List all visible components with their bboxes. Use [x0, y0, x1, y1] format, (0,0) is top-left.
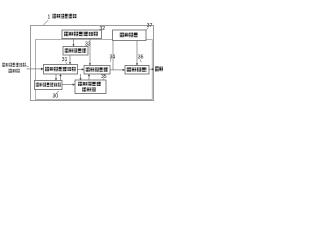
box 36 text — [127, 67, 147, 71]
leader from left text — [25, 65, 29, 67]
box 37 text — [120, 33, 138, 38]
box 32 text — [64, 32, 98, 36]
outer device box 1 — [31, 26, 154, 101]
output label (exterior) — [155, 66, 163, 71]
voice data memory box 35 — [75, 80, 106, 94]
numeral 32 leader — [100, 29, 101, 30]
box 31 text — [45, 67, 75, 71]
connector 32 to 34 — [89, 39, 91, 65]
numeral 31 leader — [66, 62, 68, 65]
numeral 37 leader — [146, 28, 148, 30]
connector 31 down to tone box — [55, 74, 57, 79]
output arrow — [149, 68, 153, 70]
arrow 34 to 36 — [110, 69, 123, 71]
inner control unit box 30 — [36, 40, 153, 100]
tone data box lower-left — [35, 81, 63, 90]
lower-left box text — [36, 83, 61, 87]
svg-text:1: 1 — [48, 15, 51, 21]
numeral 35 leader — [103, 79, 104, 81]
svg-text:32: 32 — [100, 26, 106, 32]
amplifier box 36 — [125, 66, 149, 75]
svg-text:31: 31 — [62, 57, 68, 63]
connector 37 to line junction — [112, 41, 114, 70]
numeral 33 leader — [87, 45, 88, 48]
display box 37 — [113, 30, 147, 41]
connector 32 to 33 — [73, 39, 75, 46]
title text (device name) — [53, 14, 77, 19]
connector 35 up to 34 — [88, 75, 90, 80]
synthesis box 34 — [84, 66, 110, 75]
left outside text line1 — [2, 63, 25, 67]
arrow tone box to 35 — [62, 84, 73, 86]
svg-text:36: 36 — [138, 55, 144, 61]
arrow 31 to 34 — [78, 68, 83, 70]
left outside text line2 — [9, 69, 20, 73]
connector 33 to 31 — [69, 55, 71, 63]
connector tone box up to 31 — [60, 75, 62, 80]
title leader line — [44, 20, 49, 25]
box 35 text line2 — [82, 87, 95, 91]
box 35 text line1 — [78, 82, 101, 86]
random number box 33 — [63, 47, 88, 56]
voice control box 31 — [44, 65, 78, 75]
numeral 30 leader — [56, 91, 58, 93]
input arrow — [27, 68, 42, 70]
connector 37 to 36 — [136, 41, 138, 65]
box 33 text — [65, 48, 86, 52]
svg-text:34: 34 — [110, 55, 116, 61]
numeral 34 leader — [109, 59, 112, 62]
connector 34/junction down to 35 — [80, 74, 82, 79]
box 34 text — [86, 67, 108, 71]
svg-text:30: 30 — [53, 94, 59, 100]
command processing box 32 — [62, 30, 102, 39]
numeral 36 leader — [140, 59, 141, 62]
